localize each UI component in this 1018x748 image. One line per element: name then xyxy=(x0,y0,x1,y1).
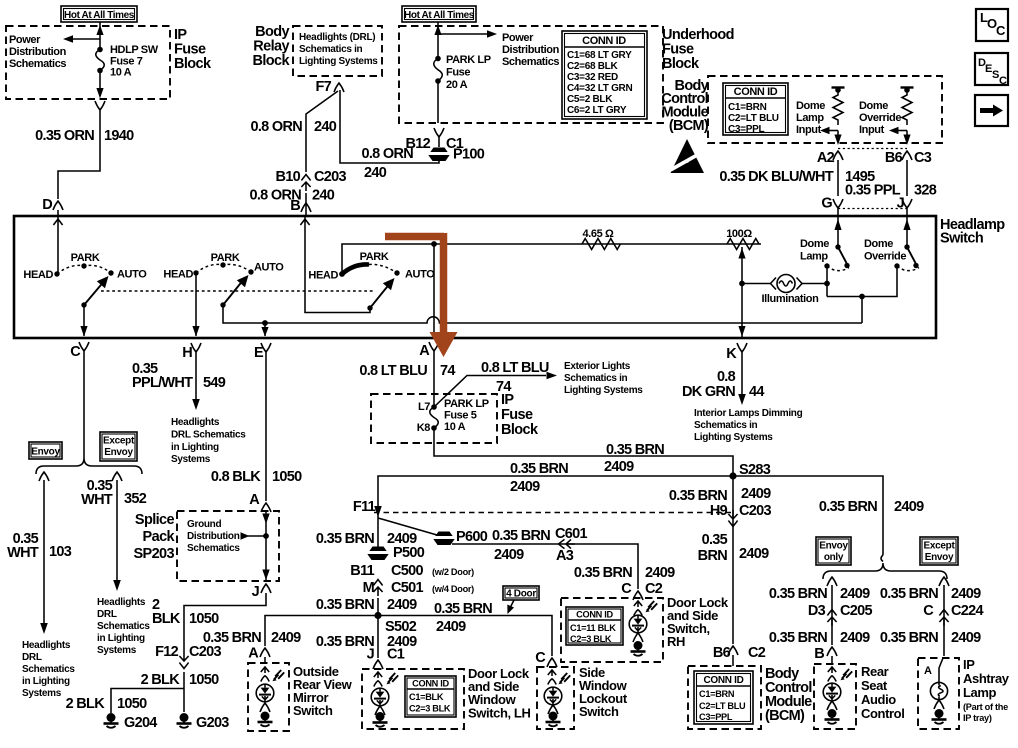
svg-text:0.35 BRN: 0.35 BRN xyxy=(819,499,877,515)
Dome Override Input exit arrow down xyxy=(903,131,910,146)
fuse 7 value label xyxy=(110,44,159,79)
svg-text:WHT: WHT xyxy=(7,545,39,561)
Dome Lamp switch xyxy=(824,217,849,271)
Dome Lamp Input label xyxy=(796,100,825,136)
svg-text:2409: 2409 xyxy=(894,499,924,515)
svg-text:DRL Schematics: DRL Schematics xyxy=(171,430,246,441)
label 0.35 BRN 2409 (fuse to S283) xyxy=(604,442,664,475)
svg-text:352: 352 xyxy=(124,491,147,507)
svg-text:Schematics in: Schematics in xyxy=(694,420,758,431)
terminal A2 xyxy=(817,150,843,166)
Except Envoy branch fork xyxy=(939,577,949,586)
CONN ID table (BCM bottom) xyxy=(694,671,753,724)
svg-text:2409: 2409 xyxy=(741,486,771,502)
svg-text:C1=11 BLK: C1=11 BLK xyxy=(570,623,616,633)
svg-text:C203: C203 xyxy=(314,169,346,185)
svg-text:0.35 BRN: 0.35 BRN xyxy=(316,597,374,613)
terminal B6 xyxy=(885,150,912,166)
svg-text:DRL: DRL xyxy=(97,609,117,620)
wire F7 to B10 (diagonal) 0.8 ORN 240 xyxy=(306,91,338,172)
svg-text:D3: D3 xyxy=(808,603,826,619)
junction at A takeoff xyxy=(431,241,437,247)
svg-text:20 A: 20 A xyxy=(446,79,468,91)
svg-text:Schematics: Schematics xyxy=(187,543,240,554)
svg-text:2409: 2409 xyxy=(510,479,540,495)
switch 2 wiper arm xyxy=(220,275,248,308)
wire A vertical xyxy=(433,244,435,337)
svg-text:2 BLK: 2 BLK xyxy=(66,696,106,712)
svg-text:2409: 2409 xyxy=(494,547,524,563)
label 0.8 LT BLU 74 (branch) xyxy=(481,360,549,395)
svg-text:B12: B12 xyxy=(406,136,431,152)
connector C C224 xyxy=(923,603,983,626)
svg-text:Schematics: Schematics xyxy=(97,621,150,632)
svg-text:(BCM): (BCM) xyxy=(765,708,805,724)
svg-text:Power: Power xyxy=(502,32,534,44)
CONN ID table (LH switch) xyxy=(405,676,456,717)
svg-text:(w/2 Door): (w/2 Door) xyxy=(432,567,474,577)
svg-text:Hot At All Times: Hot At All Times xyxy=(64,10,135,21)
svg-text:Power: Power xyxy=(9,34,41,46)
Rear Seat Audio Control box xyxy=(814,664,856,729)
connector C601 A3 xyxy=(555,526,587,564)
svg-text:0.35 BRN: 0.35 BRN xyxy=(606,442,664,458)
svg-text:Switch: Switch xyxy=(940,231,983,247)
svg-text:0.35 BRN: 0.35 BRN xyxy=(434,601,492,617)
svg-text:CONN ID: CONN ID xyxy=(734,86,778,98)
BCM dashed box (top) xyxy=(708,76,942,143)
Door Lock and Side Window Switch LH label xyxy=(468,666,530,721)
svg-text:0.35: 0.35 xyxy=(702,532,728,548)
switch 3 PARK contact / thick wiper in HEAD-PARK xyxy=(342,251,389,274)
svg-text:1050: 1050 xyxy=(189,611,219,627)
svg-text:C5=2 BLK: C5=2 BLK xyxy=(567,94,613,105)
svg-text:Envoy: Envoy xyxy=(104,447,133,458)
switch 2 AUTO contact xyxy=(248,262,284,275)
Except Envoy box (right) xyxy=(920,537,958,565)
connector B11/M C500 C501 xyxy=(350,563,474,596)
label 1495 / 0.35 PPL xyxy=(845,169,901,199)
svg-text:2409: 2409 xyxy=(739,546,769,562)
wire to C C224 0.35 BRN 2409 xyxy=(943,585,945,645)
wire dome lamp contact down xyxy=(826,266,828,297)
svg-text:Lamp: Lamp xyxy=(963,685,997,700)
svg-text:44: 44 xyxy=(749,384,764,400)
svg-text:0.35 PPL: 0.35 PPL xyxy=(845,183,901,199)
wire S283 down to H9 0.35 BRN 2409 C203 xyxy=(732,476,734,666)
Power Distribution Schematics reference (middle) xyxy=(502,32,560,68)
wire through splice pack xyxy=(262,511,269,581)
fuse HDLP SW Fuse 7 10A xyxy=(96,47,105,74)
fuse PARK LP Fuse 5 10A xyxy=(417,401,439,434)
svg-text:A: A xyxy=(924,665,932,677)
svg-text:Switch: Switch xyxy=(579,704,619,719)
wire F12 to grounds 2 BLK 1050 xyxy=(183,672,185,712)
svg-text:1050: 1050 xyxy=(117,696,147,712)
svg-text:RH: RH xyxy=(667,634,685,649)
svg-text:Lighting Systems: Lighting Systems xyxy=(564,385,643,396)
wire from terminal B to switch 3 pivot xyxy=(300,217,370,313)
Dome Override Input label xyxy=(859,100,901,136)
Power Distribution Schematics reference (left) xyxy=(9,34,67,70)
svg-text:2 BLK: 2 BLK xyxy=(141,672,181,688)
svg-text:IP: IP xyxy=(501,392,514,408)
junction dome bus xyxy=(859,294,865,300)
svg-text:CONN ID: CONN ID xyxy=(703,675,743,686)
Rear Seat Audio Control label xyxy=(861,664,904,721)
svg-text:A: A xyxy=(249,492,260,508)
Headlights DRL reference (Except Envoy) xyxy=(97,597,150,656)
svg-text:Envoy: Envoy xyxy=(925,552,954,563)
Headlamp Switch box xyxy=(14,216,936,338)
svg-text:C203: C203 xyxy=(189,644,221,660)
arrow to Power Distribution Schematics (left) xyxy=(63,35,100,43)
svg-text:Distribution: Distribution xyxy=(502,44,560,56)
Dome Lamp label xyxy=(800,238,829,263)
splice S283 xyxy=(729,462,770,480)
forward arrow box xyxy=(975,95,1008,126)
svg-text:Envoy: Envoy xyxy=(819,541,848,552)
svg-text:Lamp: Lamp xyxy=(796,112,824,124)
svg-text:C203: C203 xyxy=(739,503,771,519)
label 0.35 BRN 2409 (C224 upper) xyxy=(880,586,981,602)
fuse 20A value label xyxy=(446,54,491,91)
svg-text:C2: C2 xyxy=(645,581,663,597)
svg-text:Systems: Systems xyxy=(97,645,137,656)
svg-text:CONN ID: CONN ID xyxy=(576,610,613,620)
svg-text:2409: 2409 xyxy=(840,586,870,602)
svg-text:Fuse 5: Fuse 5 xyxy=(444,410,477,422)
label 0.35 BRN 2409 (mirror) xyxy=(203,630,301,646)
ground G203 xyxy=(177,713,230,731)
svg-text:C2=3 BLK: C2=3 BLK xyxy=(409,704,451,714)
svg-text:(w/4 Door): (w/4 Door) xyxy=(432,584,474,594)
brace split (left) xyxy=(36,458,142,474)
Dome Override label xyxy=(864,238,906,263)
svg-text:240: 240 xyxy=(364,165,387,181)
svg-text:J: J xyxy=(252,584,260,600)
svg-text:0.35 BRN: 0.35 BRN xyxy=(316,634,374,650)
svg-text:A: A xyxy=(419,343,430,359)
svg-text:Lamp: Lamp xyxy=(800,251,828,263)
svg-text:0.35 BRN: 0.35 BRN xyxy=(203,630,261,646)
svg-text:240: 240 xyxy=(312,188,335,204)
grommet P500 xyxy=(367,545,425,561)
label 0.35 BRN 2409 / H9 C203 xyxy=(669,486,772,527)
switch 1 wire from D to HEAD xyxy=(53,217,62,274)
label 0.35 PPL/WHT 549 xyxy=(132,361,226,391)
terminal E xyxy=(254,343,271,361)
arrow Ground Distribution to splice wire xyxy=(241,532,269,540)
Dome Lamp Input left arrow xyxy=(820,127,838,134)
label 0.35 BRN 2409 (S283 left) xyxy=(510,461,568,495)
label 0.8 ORN 240 (lower) xyxy=(249,188,334,204)
svg-text:Schematics: Schematics xyxy=(22,664,75,675)
IP Fuse Block label (middle) xyxy=(501,392,539,438)
svg-text:S502: S502 xyxy=(385,619,417,635)
svg-text:C: C xyxy=(923,603,934,619)
switch 2 PARK contact xyxy=(211,252,240,268)
label 0.35 BRN 2409 (to BCM) xyxy=(698,532,769,564)
wire to S502 0.35 BRN 2409 xyxy=(377,598,379,616)
terminal H xyxy=(182,343,201,361)
svg-text:C2=3 BLK: C2=3 BLK xyxy=(570,634,612,644)
Side Window Lockout Switch box xyxy=(537,667,574,729)
svg-text:G204: G204 xyxy=(124,715,157,731)
svg-text:1940: 1940 xyxy=(104,128,134,144)
svg-text:Systems: Systems xyxy=(22,688,62,699)
svg-text:Envoy: Envoy xyxy=(31,447,60,458)
svg-text:2409: 2409 xyxy=(604,459,634,475)
CONN ID table (underhood fuse block) xyxy=(562,31,647,119)
Dome Override Input resistor xyxy=(901,87,914,125)
terminal A xyxy=(419,342,439,359)
svg-text:10 A: 10 A xyxy=(444,421,466,433)
svg-text:P100: P100 xyxy=(453,147,485,163)
svg-text:PPL/WHT: PPL/WHT xyxy=(132,375,193,391)
svg-text:Fuse: Fuse xyxy=(501,407,533,423)
svg-text:B11: B11 xyxy=(350,563,374,579)
B12 fork xyxy=(434,128,444,137)
svg-text:C: C xyxy=(996,23,1006,38)
svg-text:HEAD: HEAD xyxy=(308,270,338,282)
svg-text:549: 549 xyxy=(203,375,226,391)
terminal K xyxy=(726,343,747,362)
resistor 100 ohm xyxy=(726,228,759,250)
junction at E takeoff xyxy=(262,320,268,326)
svg-text:Dome: Dome xyxy=(864,238,893,250)
terminal G xyxy=(821,196,843,217)
svg-text:HEAD: HEAD xyxy=(23,269,53,281)
svg-text:CONN ID: CONN ID xyxy=(582,35,626,47)
svg-text:Headlights: Headlights xyxy=(22,640,71,651)
label 0.8 DK GRN 44 xyxy=(682,369,764,400)
svg-text:PARK LP: PARK LP xyxy=(446,54,491,66)
svg-text:SP203: SP203 xyxy=(133,546,174,562)
label 0.35 ORN 1940 xyxy=(35,128,134,144)
label 0.35 BRN 2409 (right branch) xyxy=(819,499,924,515)
Outside Rear View Mirror Switch label xyxy=(293,664,353,718)
svg-text:PARK: PARK xyxy=(211,252,240,264)
svg-text:0.8 LT BLU: 0.8 LT BLU xyxy=(359,363,427,379)
svg-text:C205: C205 xyxy=(840,603,872,619)
wire C down to brace xyxy=(83,357,85,458)
svg-text:C: C xyxy=(999,75,1007,87)
dashed HEAD position line xyxy=(101,290,373,292)
switch 3 AUTO contact xyxy=(394,269,435,281)
wire A down 0.8 LT BLU 74 xyxy=(433,357,435,407)
svg-text:AUTO: AUTO xyxy=(405,269,435,281)
svg-text:2409: 2409 xyxy=(840,630,870,646)
Body Control Module (BCM) label (top) xyxy=(661,78,709,134)
Dome Override switch xyxy=(894,217,919,271)
svg-text:Schematics in: Schematics in xyxy=(564,373,628,384)
svg-text:2409: 2409 xyxy=(271,630,301,646)
svg-text:Headlights: Headlights xyxy=(171,417,220,428)
label 0.35 BRN 2409 (D3 upper) xyxy=(769,586,870,602)
grommet P600 xyxy=(433,529,488,545)
label 0.35 BRN 2409 (F11) xyxy=(316,531,417,547)
svg-text:C2: C2 xyxy=(748,645,766,661)
svg-text:(Part of the: (Part of the xyxy=(963,702,1008,712)
svg-text:Block: Block xyxy=(662,56,700,72)
switch 3 dashed arc to AUTO xyxy=(369,264,397,273)
svg-text:Control: Control xyxy=(861,706,904,721)
Except Envoy branch fork xyxy=(112,472,122,481)
svg-text:Systems: Systems xyxy=(171,454,211,465)
svg-text:2409: 2409 xyxy=(645,565,675,581)
terminal C C2 (RH switch) xyxy=(621,581,663,600)
switch 1 dashed position arc xyxy=(57,265,111,274)
terminal B fork xyxy=(301,203,311,212)
wire 0.8 ORN 240 to terminal B xyxy=(305,193,307,216)
svg-text:0.35 ORN: 0.35 ORN xyxy=(35,128,94,144)
wire to D3 C205 0.35 BRN 2409 xyxy=(831,585,833,664)
wire K down 0.8 DK GRN 44 xyxy=(738,358,746,405)
Outside Rear View Mirror Switch box xyxy=(248,663,289,731)
svg-text:Audio: Audio xyxy=(861,692,896,707)
svg-text:D: D xyxy=(42,197,52,213)
svg-text:C501: C501 xyxy=(391,580,423,596)
svg-text:C1=BRN: C1=BRN xyxy=(699,689,735,699)
svg-text:H9: H9 xyxy=(710,503,728,519)
svg-text:0.35 BRN: 0.35 BRN xyxy=(316,531,374,547)
Dome Override Input left arrow xyxy=(889,127,907,134)
svg-text:1050: 1050 xyxy=(189,672,219,688)
label 0.35 BRN 2409 (B lower) xyxy=(769,630,870,646)
terminal J xyxy=(897,196,912,217)
Hot At All Times label box (left) xyxy=(61,6,137,22)
IP Ashtray Lamp label xyxy=(963,657,1010,723)
svg-text:Headlights (DRL): Headlights (DRL) xyxy=(299,32,375,43)
switch 3 wiper arm xyxy=(367,278,394,311)
Splice Pack SP203 dashed box xyxy=(177,511,279,581)
svg-text:C2=LT BLU: C2=LT BLU xyxy=(728,113,779,124)
svg-text:in Lighting: in Lighting xyxy=(171,442,219,453)
wire S502 right to lockout switch 0.35 BRN 2409 xyxy=(378,616,552,657)
svg-text:2409: 2409 xyxy=(951,586,981,602)
label 0.8 LT BLU 74 xyxy=(359,363,455,379)
svg-text:C3=PPL: C3=PPL xyxy=(699,712,733,722)
F7 fork xyxy=(334,83,344,92)
svg-text:Except: Except xyxy=(924,541,956,552)
IP Fuse Block dashed box (top left) xyxy=(6,26,170,99)
LOC reference box xyxy=(976,9,1008,41)
label 0.8 BLK 1050 xyxy=(211,469,302,485)
svg-text:B10: B10 xyxy=(276,169,301,185)
svg-text:0.8: 0.8 xyxy=(717,369,736,385)
Underhood Fuse Block label xyxy=(662,27,734,72)
svg-text:C: C xyxy=(70,344,81,360)
wire S283 right branch 0.35 BRN 2409 xyxy=(733,476,883,555)
terminal J C1 (LH switch) xyxy=(367,647,405,670)
harness dotted box xyxy=(838,149,907,209)
wire fuse 20A output to B12 xyxy=(437,81,439,123)
svg-text:Dome: Dome xyxy=(800,238,829,250)
svg-text:K8: K8 xyxy=(417,422,431,434)
svg-text:0.8 LT BLU: 0.8 LT BLU xyxy=(481,360,549,376)
svg-text:C601: C601 xyxy=(555,526,587,542)
wire 100 ohm down to K with pass arrows xyxy=(738,247,745,337)
wire lamp to dome lamp contact xyxy=(802,283,827,285)
svg-text:C3: C3 xyxy=(914,150,932,166)
label 2 BLK 1050 xyxy=(152,597,219,627)
svg-text:0.35 BRN: 0.35 BRN xyxy=(669,488,727,504)
terminal J (splice pack) xyxy=(252,584,271,600)
svg-text:0.35 BRN: 0.35 BRN xyxy=(492,528,550,544)
svg-text:in Lighting: in Lighting xyxy=(22,676,70,687)
svg-text:Exterior Lights: Exterior Lights xyxy=(564,361,631,372)
svg-text:Switch: Switch xyxy=(293,703,333,718)
svg-text:G203: G203 xyxy=(196,715,229,731)
svg-text:2409: 2409 xyxy=(951,630,981,646)
svg-text:DK GRN: DK GRN xyxy=(682,384,735,400)
BCM box (bottom) xyxy=(688,666,761,729)
resistor 4.65 ohm xyxy=(582,228,620,250)
svg-text:0.35 DK BLU/WHT: 0.35 DK BLU/WHT xyxy=(719,169,833,185)
svg-text:C6=2 LT GRY: C6=2 LT GRY xyxy=(567,105,627,116)
fuse 5 value label xyxy=(444,398,489,433)
terminal C xyxy=(70,342,89,360)
svg-text:Input: Input xyxy=(859,124,885,136)
Hot At All Times label box (middle) xyxy=(402,6,476,22)
svg-text:C1=BLK: C1=BLK xyxy=(409,692,444,702)
wire dome override contact down xyxy=(827,266,897,297)
Headlights DRL reference (Envoy) xyxy=(22,640,75,699)
Door Lock and Side Window Switch LH box xyxy=(362,669,464,729)
wire F11 to P500 0.35 BRN 2409 xyxy=(377,514,379,547)
svg-text:only: only xyxy=(824,552,844,563)
splice S502 xyxy=(374,612,416,635)
switch 1 HEAD contact xyxy=(23,269,59,281)
IP Ashtray Lamp box xyxy=(918,645,959,729)
svg-text:103: 103 xyxy=(49,544,72,560)
svg-text:F7: F7 xyxy=(315,79,331,95)
C203 inline connector dashed line xyxy=(374,512,735,514)
svg-text:HDLP SW: HDLP SW xyxy=(110,44,159,56)
wire S283 to F11 0.35 BRN 2409 xyxy=(378,476,733,506)
wire J to F12 2 BLK 1050 xyxy=(184,593,266,652)
svg-text:C: C xyxy=(621,581,632,597)
svg-text:BLK: BLK xyxy=(152,611,181,627)
svg-text:C3=32 RED: C3=32 RED xyxy=(567,72,618,83)
svg-text:1050: 1050 xyxy=(272,469,302,485)
svg-text:in Lighting: in Lighting xyxy=(97,633,145,644)
svg-text:Lighting Systems: Lighting Systems xyxy=(694,432,773,443)
junction illumination takeoff xyxy=(739,281,745,287)
svg-text:P600: P600 xyxy=(456,529,488,545)
wire S502 down to LH switch 0.35 BRN 2409 xyxy=(377,616,379,659)
Door Lock and Side Switch RH label xyxy=(667,595,729,649)
junction dome lamp lower xyxy=(824,281,830,287)
switch 2 wire HEAD to terminal H xyxy=(192,273,199,337)
svg-text:Lighting Systems: Lighting Systems xyxy=(299,56,378,67)
wire dome junction down to internal bus xyxy=(861,297,863,324)
switch 3 riser from HEAD to resistor rail xyxy=(342,244,761,274)
label 0.35 BRN 2409 (lockout) xyxy=(434,601,492,635)
svg-text:C: C xyxy=(535,650,546,666)
branch to Exterior Lights arrow xyxy=(434,372,557,407)
wire 0.35 WHT 352 xyxy=(113,480,121,591)
svg-text:A: A xyxy=(248,646,259,662)
label 0.35 BRN 2409 (P600) xyxy=(492,528,550,563)
svg-text:F11: F11 xyxy=(353,499,376,515)
Body Control Module (BCM) label (bottom) xyxy=(765,666,812,724)
Envoy branch fork xyxy=(39,472,49,481)
svg-text:Block: Block xyxy=(253,53,291,69)
Interior Lamps Dimming reference xyxy=(694,408,803,443)
CONN ID table (BCM top) xyxy=(723,83,788,135)
